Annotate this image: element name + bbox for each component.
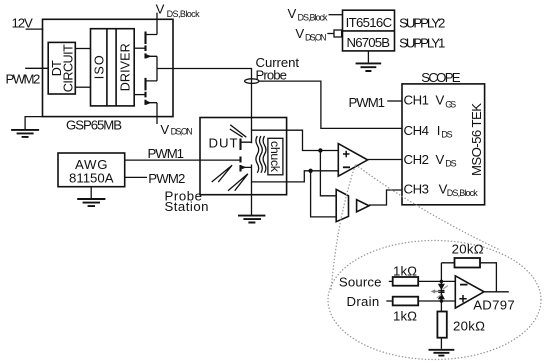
wire source to op-amp - xyxy=(418,280,455,282)
wire branch to diff probe input 1 xyxy=(320,151,336,196)
svg-text:AD797: AD797 xyxy=(473,298,515,313)
resistor R1 1k (source) xyxy=(393,263,419,285)
svg-text:V: V xyxy=(160,122,169,137)
chuck label box xyxy=(268,138,283,175)
node Drain label xyxy=(347,294,393,309)
resistor R2 1k (drain) xyxy=(393,297,419,324)
svg-text:12V: 12V xyxy=(12,16,34,31)
wire supply to ground xyxy=(367,51,369,63)
wire PWM2 stub from AWG xyxy=(125,176,147,178)
svg-text:1kΩ: 1kΩ xyxy=(393,263,417,278)
svg-text:PWM1: PWM1 xyxy=(148,146,185,161)
probe station label xyxy=(165,188,209,214)
ground (inset) xyxy=(429,350,455,356)
ground (GSP65MB) xyxy=(11,130,39,137)
current direction arrow (gray) xyxy=(431,286,448,298)
op-amp U4 AD797 xyxy=(455,276,514,313)
transistor Q1 (high-side MOSFET) xyxy=(146,32,158,59)
wire source sense to op-amp - input xyxy=(287,169,339,182)
supply box IT6516C / N6705B xyxy=(343,10,395,51)
zoom leader line left xyxy=(331,166,355,291)
svg-text:N6705B: N6705B xyxy=(347,35,391,50)
node PWM1 at scope xyxy=(349,95,403,110)
op-amp U1 (differential amplifier) xyxy=(338,144,367,177)
node Source label xyxy=(339,274,393,289)
zoom ellipse xyxy=(328,241,541,360)
wire DT to ISO (bottom) xyxy=(75,86,90,88)
svg-text:V: V xyxy=(436,93,445,108)
wire PWM2 to DT CIRCUIT xyxy=(25,67,48,69)
svg-text:SUPPLY2: SUPPLY2 xyxy=(399,15,445,30)
ground (probe station) xyxy=(238,216,265,223)
zoom leader line right xyxy=(356,165,500,250)
svg-text:DUT: DUT xyxy=(209,135,238,150)
transistor Q3 (DUT) xyxy=(241,139,252,172)
node 12V label xyxy=(12,16,34,31)
DT CIRCUIT block xyxy=(48,42,75,94)
svg-text:IT6516C: IT6516C xyxy=(346,15,393,30)
wire buffer to CH3 xyxy=(369,190,402,205)
wire PWM1: AWG to DUT gate xyxy=(125,159,241,161)
svg-text:DS,Block: DS,Block xyxy=(167,9,201,19)
svg-text:Station: Station xyxy=(165,199,209,214)
node CH1 row xyxy=(404,93,457,110)
wire chuck to ground xyxy=(251,182,253,215)
svg-text:Drain: Drain xyxy=(347,294,380,309)
AWG 81150A box xyxy=(58,153,125,187)
svg-text:Source: Source xyxy=(339,274,382,289)
node VDS,ON at supply with connector square xyxy=(295,26,342,43)
heater wavy lines xyxy=(256,136,266,173)
svg-text:CH4: CH4 xyxy=(404,123,430,138)
probe needle (source) xyxy=(228,174,248,191)
current probe ellipse xyxy=(245,79,259,84)
wire R4 to ground xyxy=(440,338,442,349)
scope box MSO-56 xyxy=(402,70,485,205)
svg-text:chuck: chuck xyxy=(268,141,282,173)
node CH2 row xyxy=(404,152,457,169)
wire AWG to ground xyxy=(90,187,92,198)
svg-text:PWM1: PWM1 xyxy=(349,95,386,110)
diff probe trapezoid U2 xyxy=(336,189,348,221)
wire feedback loop xyxy=(441,263,496,292)
probe needle (drain) xyxy=(230,125,247,137)
diode D1 (clamp down) xyxy=(438,284,445,291)
svg-text:DS,Block: DS,Block xyxy=(298,13,329,23)
svg-text:20kΩ: 20kΩ xyxy=(453,319,485,334)
svg-text:DS,ON: DS,ON xyxy=(305,33,327,43)
svg-text:DRIVER: DRIVER xyxy=(119,43,133,91)
svg-text:DS: DS xyxy=(445,159,457,169)
svg-text:I: I xyxy=(437,123,441,138)
node CH4 row xyxy=(404,123,453,140)
svg-text:CH2: CH2 xyxy=(404,152,430,167)
chuck enclosure box xyxy=(252,130,287,182)
wire drain sense to op-amp + input xyxy=(287,130,339,153)
svg-text:CH1: CH1 xyxy=(404,93,430,108)
node VDS,Block (top stem + label) xyxy=(156,2,201,35)
resistor R3 20k (feedback) xyxy=(452,242,484,268)
svg-text:DS,Block: DS,Block xyxy=(447,188,479,198)
svg-text:CH3: CH3 xyxy=(404,181,430,196)
svg-text:SUPPLY1: SUPPLY1 xyxy=(399,35,445,50)
svg-text:GSP65MB: GSP65MB xyxy=(66,118,122,133)
wire drain to op-amp + xyxy=(418,300,455,302)
svg-text:V: V xyxy=(295,26,304,41)
probe needle (gate) xyxy=(212,165,232,182)
current probe label xyxy=(256,55,300,83)
svg-text:DS,ON: DS,ON xyxy=(171,127,193,137)
wire half-bridge midpoint to probe station xyxy=(157,69,252,131)
wire current probe to CH4 xyxy=(259,81,402,128)
node VDS,Block at supply xyxy=(288,6,343,23)
svg-text:20kΩ: 20kΩ xyxy=(452,242,484,257)
wire 12V to GSP65MB xyxy=(26,28,44,30)
svg-text:PWM2: PWM2 xyxy=(6,71,41,86)
node CH3 row xyxy=(404,181,479,198)
probe station box xyxy=(200,118,287,195)
diode D2 (clamp up) xyxy=(438,292,445,299)
transistor Q2 (low-side MOSFET) xyxy=(146,78,158,105)
svg-text:GS: GS xyxy=(445,99,456,109)
resistor R4 20k (to ground) xyxy=(437,312,485,338)
wire Q1 source to Q2 drain xyxy=(156,56,158,81)
svg-text:81150A: 81150A xyxy=(69,170,114,185)
ground (supply) xyxy=(356,63,382,71)
wire gate high-side xyxy=(134,47,145,49)
ground (AWG) xyxy=(77,199,105,206)
svg-text:MSO-56 TEK: MSO-56 TEK xyxy=(469,103,484,176)
wire op-amp output xyxy=(484,291,509,293)
svg-text:PWM2: PWM2 xyxy=(148,171,185,186)
wire gate low-side xyxy=(134,94,145,96)
svg-text:Probe: Probe xyxy=(256,68,288,83)
svg-text:V: V xyxy=(436,152,445,167)
node VDS,ON (bottom stem + label) xyxy=(157,103,193,137)
svg-text:V: V xyxy=(156,2,165,17)
buffer triangle U3 xyxy=(357,200,369,212)
svg-text:DS: DS xyxy=(441,130,453,140)
wire bottom edge extension to ground xyxy=(25,117,42,130)
wire DT to ISO (top) xyxy=(75,48,90,50)
GSP65MB board box xyxy=(43,19,174,132)
svg-text:CIRCUIT: CIRCUIT xyxy=(61,44,75,92)
ISO / DRIVER block U-ISO xyxy=(91,29,135,106)
wire op-amp output to CH2 xyxy=(368,159,402,161)
svg-text:SCOPE: SCOPE xyxy=(421,70,461,85)
wire clamp vertical / feedback left xyxy=(440,263,444,312)
svg-text:1kΩ: 1kΩ xyxy=(393,308,417,323)
wire branch to diff probe input 2 xyxy=(311,171,337,217)
svg-text:V: V xyxy=(288,6,297,21)
node PWM2 label (left input) xyxy=(6,71,41,86)
